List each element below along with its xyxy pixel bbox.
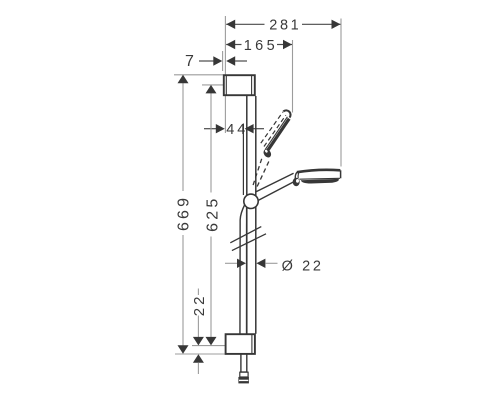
dimension 7 line	[199, 60, 214, 62]
dimension 669 line	[182, 76, 184, 191]
dashed handle lines	[252, 159, 262, 188]
hose upper curve	[240, 205, 245, 334]
hose coupling	[240, 371, 248, 373]
hand shower head (solid, horizontal)	[293, 170, 341, 186]
dashed hand shower head (raised position)	[261, 110, 291, 159]
svg-text:281: 281	[269, 17, 301, 33]
hand shower handle (solid)	[256, 173, 293, 191]
slider circle	[244, 194, 258, 208]
svg-text:Ø 22: Ø 22	[282, 258, 324, 274]
extension tick for 7	[222, 51, 224, 71]
extension line left vertical (wall reference)	[224, 16, 226, 133]
dimension 44 line	[204, 128, 216, 130]
break line upper	[230, 227, 261, 243]
dimension 165 line	[226, 44, 241, 46]
extension line top horizontal (669 ref)	[174, 74, 223, 76]
dimension 625 line	[210, 86, 212, 193]
svg-text:7: 7	[185, 53, 194, 70]
bottom bracket	[226, 334, 255, 354]
extension line right for 281	[340, 19, 342, 167]
hose below bracket	[240, 354, 242, 372]
holder pivot reference line	[242, 124, 244, 196]
extension line bottom horizontal (669/22 ref)	[175, 353, 225, 355]
svg-text:22: 22	[191, 294, 208, 317]
hose nut	[238, 377, 249, 384]
extension line top horizontal (625 ref)	[202, 84, 223, 86]
wall bar	[246, 96, 248, 334]
svg-text:44: 44	[226, 122, 248, 138]
dimension 281 line	[226, 23, 264, 25]
svg-text:165: 165	[244, 38, 278, 54]
svg-text:669: 669	[175, 195, 192, 231]
top bracket	[224, 75, 255, 95]
break line lower	[232, 234, 266, 251]
extension line bottom horizontal (625/22 ref)	[192, 345, 225, 347]
svg-text:625: 625	[204, 196, 221, 232]
dimension diameter 22 line	[225, 262, 238, 264]
dimension 22 line	[197, 289, 199, 296]
hose right edge	[245, 208, 247, 334]
extension line right for 165	[292, 40, 294, 113]
